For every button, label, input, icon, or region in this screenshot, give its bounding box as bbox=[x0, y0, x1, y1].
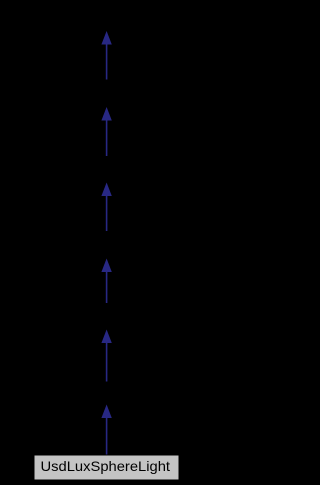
svg-text:UsdLuxSphereLight: UsdLuxSphereLight bbox=[41, 458, 171, 474]
